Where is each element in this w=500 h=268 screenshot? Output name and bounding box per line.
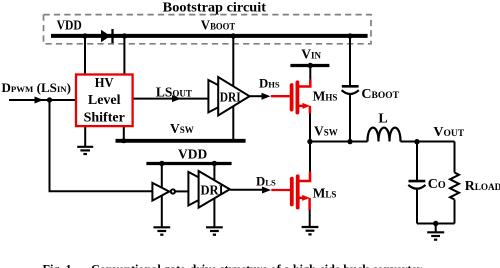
svg-text:DRI: DRI [201,182,224,197]
svg-text:CO: CO [428,177,446,192]
svg-text:Fig. 1.: Fig. 1. [43,262,75,268]
svg-text:Conventional gate-drive struct: Conventional gate-drive structure of a h… [91,262,424,268]
svg-text:L: L [378,112,387,127]
svg-text:Bootstrap circuit: Bootstrap circuit [163,1,267,16]
svg-text:Shifter: Shifter [84,110,125,125]
svg-text:Level: Level [88,93,121,108]
svg-text:HV: HV [95,76,114,91]
svg-text:DLS: DLS [256,174,276,188]
svg-text:VDD: VDD [57,19,82,34]
svg-text:VDD: VDD [178,148,207,163]
svg-text:DRI: DRI [220,91,241,106]
svg-text:DHS: DHS [259,77,280,91]
